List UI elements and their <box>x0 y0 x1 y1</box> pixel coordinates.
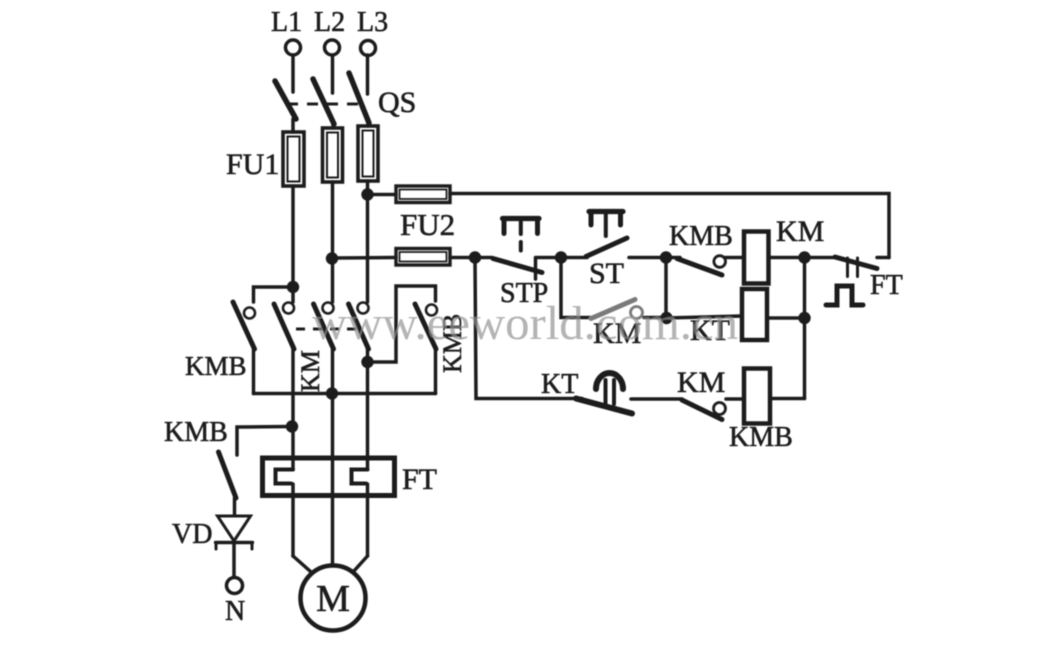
contact KMB brake <box>219 452 237 498</box>
svg-text:QS: QS <box>378 86 416 119</box>
switch QS blade 3 <box>349 73 369 123</box>
contact KM NO aux <box>591 300 635 319</box>
terminal L3 <box>361 41 376 56</box>
wire L1 below FT <box>291 484 295 556</box>
contact KMB NC row1 <box>677 259 722 276</box>
svg-text:KT: KT <box>541 369 578 400</box>
svg-text:VD: VD <box>172 519 212 550</box>
diode VD <box>218 516 251 541</box>
node L3/FU2a <box>361 188 373 200</box>
FT thermal bump <box>826 286 863 305</box>
wire L3 column lower <box>366 349 370 468</box>
svg-text:FT: FT <box>402 463 437 496</box>
svg-text:N: N <box>225 596 245 627</box>
wire KMB right down <box>434 349 438 394</box>
node after KM coil <box>798 251 810 263</box>
contactor KMB main contact left <box>244 308 255 319</box>
wire row1 a <box>450 256 492 260</box>
contactor KM main contact 2 <box>323 303 334 314</box>
FT heater jog 3 <box>352 470 368 484</box>
wire row1 b <box>536 256 562 260</box>
wire VD to N <box>232 543 236 578</box>
thermal relay FT box <box>263 458 395 496</box>
node row2 <box>660 312 672 324</box>
svg-text:ST: ST <box>589 257 624 290</box>
svg-text:FU2: FU2 <box>400 207 455 242</box>
pushbutton ST actuator <box>589 209 623 214</box>
wire L2 column <box>331 182 335 302</box>
wire row3 mid <box>631 397 682 401</box>
wire row1 c <box>561 256 587 260</box>
wire top rail <box>450 194 889 258</box>
contact KM NC row3 <box>682 400 722 420</box>
wire row2 mid <box>666 316 742 318</box>
node L2/FU2b <box>326 252 338 264</box>
wire FU2a left <box>368 193 397 197</box>
QS linkage dashed <box>287 103 367 106</box>
svg-text:KM: KM <box>677 366 725 399</box>
svg-text:KMB: KMB <box>164 417 228 448</box>
STP fixed terminal <box>534 258 538 279</box>
wire L3 column <box>366 181 370 302</box>
node after FU2b <box>469 251 481 263</box>
wire L3 below FT <box>366 484 370 556</box>
fuse FU1 pole3 <box>358 126 378 181</box>
svg-text:KM: KM <box>776 215 824 248</box>
motor lead right <box>354 556 368 572</box>
wire row2 left drop <box>561 258 592 318</box>
wire row2 right <box>767 316 805 320</box>
node after STP <box>555 251 567 263</box>
node L1 bracket <box>287 281 299 293</box>
KM linkage dashed <box>296 328 362 331</box>
coil KMB <box>744 369 770 424</box>
motor lead left <box>293 556 311 572</box>
wire row3 left drop <box>475 258 582 399</box>
bottom rail wire <box>254 392 436 396</box>
wire L2 stub <box>331 55 335 93</box>
wire QS to FU1 <box>291 119 295 132</box>
coil KM <box>744 232 769 284</box>
wire row3 right <box>770 397 805 401</box>
contact FT NC row1 <box>805 256 837 260</box>
wire FU2b left <box>333 256 397 260</box>
pushbutton STP actuator <box>503 216 540 221</box>
node after ST <box>660 251 672 263</box>
contactor KM main contact 3 <box>358 303 369 314</box>
contact KT delay <box>576 399 632 414</box>
node bottom rail <box>326 387 338 399</box>
svg-text:KMB: KMB <box>669 221 733 252</box>
fuse FU1 pole2 <box>323 128 343 182</box>
wire KMB left down <box>252 349 256 394</box>
wire ST down link <box>664 258 668 318</box>
svg-text:www.eeworld.com.cn: www.eeworld.com.cn <box>312 297 738 350</box>
fuse FU1 pole1 <box>283 132 304 186</box>
svg-text:FT: FT <box>870 270 903 301</box>
svg-text:KM: KM <box>296 350 325 392</box>
wire KMB brake tap <box>237 427 292 456</box>
wire right vertical <box>803 258 807 399</box>
terminal L2 <box>325 40 340 55</box>
svg-text:L1: L1 <box>271 7 302 38</box>
svg-text:L3: L3 <box>357 7 388 38</box>
pushbutton STP blade <box>493 259 542 273</box>
fuse FU2 lower <box>396 249 450 266</box>
wire L2 column lower <box>331 349 335 565</box>
wire L1 column lower <box>291 349 295 468</box>
terminal N <box>227 578 243 594</box>
contactor KMB main contact right <box>426 305 437 316</box>
switch QS blade 1 <box>275 81 296 119</box>
switch QS blade 2 <box>313 79 334 124</box>
FT heater jog 1 <box>276 470 294 484</box>
node L3 bracket <box>361 356 373 368</box>
wire L3 stub <box>366 55 370 94</box>
pushbutton ST blade <box>586 238 627 257</box>
coil KT <box>742 289 767 340</box>
svg-text:M: M <box>316 578 350 620</box>
node row2 right <box>798 312 810 324</box>
svg-text:KMB: KMB <box>729 422 793 453</box>
motor M circle <box>301 566 366 631</box>
svg-text:FU1: FU1 <box>226 148 279 181</box>
wire L1 column <box>291 186 295 302</box>
svg-text:KMB: KMB <box>185 351 247 381</box>
wire row1 d <box>769 256 805 260</box>
KMB bracket right wire <box>368 286 436 362</box>
contactor KM main contact 1 <box>283 303 294 314</box>
fuse FU2 upper <box>396 186 450 203</box>
wire L1 stub <box>291 55 295 92</box>
node VD tap <box>286 420 298 432</box>
svg-text:L2: L2 <box>314 7 345 38</box>
terminal L1 <box>286 40 301 55</box>
KMB bracket left wire <box>254 287 294 302</box>
